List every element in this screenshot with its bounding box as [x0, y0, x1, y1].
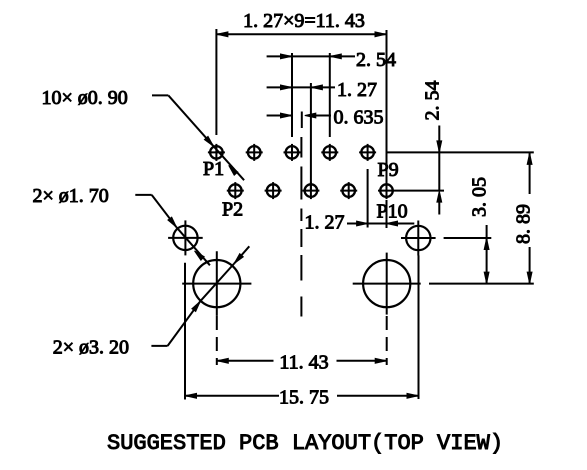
extension line P10 row (right)	[395, 190, 444, 192]
dimension 8.89 (overall height)	[513, 153, 535, 283]
centerline (vertical dashed axis)	[300, 137, 302, 317]
svg-text:P10: P10	[377, 201, 408, 223]
pad P9 (hole 0.90)	[359, 144, 376, 161]
svg-text:1. 27×9=11. 43: 1. 27×9=11. 43	[243, 10, 365, 32]
dimension 2.54 (pad row spacing, right)	[422, 81, 444, 215]
label P9	[378, 159, 399, 181]
svg-text:15. 75: 15. 75	[279, 386, 329, 408]
pad P5 (hole 0.90)	[284, 144, 301, 161]
svg-text:1. 27: 1. 27	[337, 79, 377, 101]
extension line 1.70 hole row (right)	[444, 237, 492, 239]
caption SUGGESTED PCB LAYOUT(TOP VIEW)	[107, 431, 503, 456]
extension line 3.20 hole row (right)	[429, 283, 534, 285]
pad P10 (hole 0.90)	[378, 182, 395, 199]
svg-text:10× ø0. 90: 10× ø0. 90	[42, 87, 128, 109]
extension line top pad row (right)	[387, 151, 534, 153]
svg-text:1. 27: 1. 27	[305, 212, 345, 234]
svg-text:8. 89: 8. 89	[513, 204, 535, 244]
svg-text:0. 635: 0. 635	[334, 106, 384, 128]
svg-text:P1: P1	[203, 158, 224, 180]
dimension 2.54 (top pad pitch)	[267, 49, 396, 137]
pad P7 (hole 0.90)	[321, 144, 338, 161]
label P10	[377, 201, 408, 223]
dimension 0.635 (half pitch)	[267, 106, 384, 128]
svg-text:2× ø1. 70: 2× ø1. 70	[33, 185, 109, 207]
dimension 11.43 (hole span)	[217, 316, 387, 374]
dimension 1.27×9=11.43 (top overall)	[216, 10, 386, 184]
hole 3.20 right	[353, 253, 421, 315]
hole 1.70 left	[168, 220, 203, 255]
label P2	[222, 199, 243, 221]
dimension 1.27 (P9 to P10 offset)	[305, 169, 415, 234]
dimension 15.75 (overall width)	[185, 255, 419, 408]
svg-text:P2: P2	[222, 199, 243, 221]
svg-text:SUGGESTED PCB LAYOUT(TOP VIEW): SUGGESTED PCB LAYOUT(TOP VIEW)	[107, 431, 503, 456]
leader 10× ø0.90 (to pad P1)	[42, 87, 245, 180]
svg-text:P9: P9	[378, 159, 399, 181]
pad P6 (hole 0.90)	[302, 182, 319, 199]
pad P3 (hole 0.90)	[246, 144, 263, 161]
svg-text:2× ø3. 20: 2× ø3. 20	[53, 337, 129, 359]
pad P8 (hole 0.90)	[340, 182, 357, 199]
svg-text:2. 54: 2. 54	[422, 81, 444, 121]
pad P4 (hole 0.90)	[265, 182, 282, 199]
label P1	[203, 158, 224, 180]
hole 3.20 left	[182, 251, 251, 316]
leader 2× ø3.20 (to left big hole)	[53, 246, 250, 358]
pad P2 (hole 0.90)	[227, 182, 244, 199]
leader 2× ø1.70 (to left small hole)	[33, 185, 210, 265]
dimension 3.05 (hole rows spacing)	[469, 177, 491, 284]
svg-text:2. 54: 2. 54	[356, 49, 396, 71]
svg-text:11. 43: 11. 43	[279, 352, 328, 374]
svg-text:3. 05: 3. 05	[469, 177, 491, 217]
pad P1 (hole 0.90)	[208, 144, 225, 161]
dimension 1.27 (row offset)	[267, 79, 377, 190]
hole 1.70 right	[401, 221, 436, 256]
